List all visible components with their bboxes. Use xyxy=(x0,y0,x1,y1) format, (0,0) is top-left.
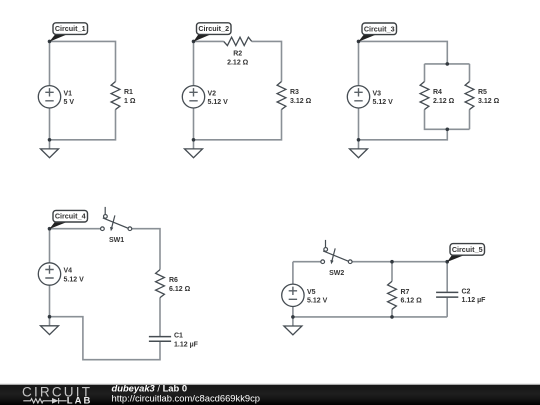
svg-text:1.12 µF: 1.12 µF xyxy=(174,341,199,348)
svg-text:Circuit_2: Circuit_2 xyxy=(198,24,229,33)
svg-text:C1: C1 xyxy=(174,333,183,340)
svg-text:Circuit_1: Circuit_1 xyxy=(55,24,86,33)
svg-text:V1: V1 xyxy=(64,90,73,97)
svg-text:5 V: 5 V xyxy=(64,99,75,106)
svg-text:R3: R3 xyxy=(290,89,299,96)
svg-text:5.12 V: 5.12 V xyxy=(64,276,85,283)
svg-text:3.12 Ω: 3.12 Ω xyxy=(478,98,500,105)
svg-text:LAB: LAB xyxy=(67,396,93,405)
svg-text:3.12 Ω: 3.12 Ω xyxy=(290,98,312,105)
svg-text:R6: R6 xyxy=(169,277,178,284)
svg-text:V4: V4 xyxy=(64,268,73,275)
svg-text:V5: V5 xyxy=(307,289,316,296)
svg-text:SW2: SW2 xyxy=(329,270,344,277)
svg-text:R5: R5 xyxy=(478,89,487,96)
svg-text:6.12 Ω: 6.12 Ω xyxy=(169,286,191,293)
svg-text:2.12 Ω: 2.12 Ω xyxy=(433,98,455,105)
svg-text:http://circuitlab.com/c8acd669: http://circuitlab.com/c8acd669kk9cp xyxy=(112,392,261,403)
svg-text:V2: V2 xyxy=(208,90,217,97)
svg-text:5.12 V: 5.12 V xyxy=(208,99,229,106)
svg-text:1.12 µF: 1.12 µF xyxy=(462,297,487,304)
svg-text:V3: V3 xyxy=(373,90,382,97)
svg-text:R7: R7 xyxy=(401,289,410,296)
svg-text:C2: C2 xyxy=(462,288,471,295)
svg-text:R4: R4 xyxy=(433,89,442,96)
svg-text:R1: R1 xyxy=(124,89,133,96)
svg-text:5.12 V: 5.12 V xyxy=(307,298,328,305)
svg-text:Circuit_4: Circuit_4 xyxy=(55,212,86,221)
svg-text:2.12 Ω: 2.12 Ω xyxy=(227,59,249,66)
svg-text:6.12 Ω: 6.12 Ω xyxy=(401,298,423,305)
svg-text:5.12 V: 5.12 V xyxy=(373,99,394,106)
svg-text:R2: R2 xyxy=(233,51,242,58)
svg-text:SW1: SW1 xyxy=(109,237,124,244)
svg-text:Circuit_5: Circuit_5 xyxy=(452,245,483,254)
svg-text:Circuit_3: Circuit_3 xyxy=(364,24,395,33)
svg-text:1 Ω: 1 Ω xyxy=(124,98,136,105)
